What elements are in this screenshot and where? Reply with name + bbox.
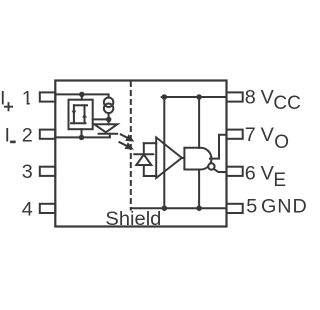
current source CS1 circle bottom (104, 104, 114, 114)
junction node B (box/pin2) (79, 135, 85, 141)
photodiode D2 anode lead (143, 165, 145, 176)
pin 1 stub (40, 92, 56, 101)
pin 5 stub (227, 204, 243, 213)
pin 4 stub (40, 204, 56, 213)
inner loop arrow down (72, 111, 77, 115)
junction node D (VCC rail / amp) (162, 94, 168, 100)
wire LED cathode to pin2 wire (109, 134, 111, 138)
enable bubble (208, 163, 214, 169)
svg-text:5: 5 (246, 195, 257, 217)
wire gate output to pin 7 (210, 135, 227, 159)
VCC top rail (162, 96, 227, 98)
junction node F (GND rail / amp) (162, 205, 168, 211)
amp power line (163, 97, 165, 208)
input network inner loop left (73, 105, 75, 123)
svg-text:1: 1 (22, 87, 33, 109)
junction node E (VCC rail / gate) (196, 94, 202, 100)
photodiode D2 triangle (136, 155, 151, 166)
light arrow 1 (121, 134, 129, 138)
wire pin1 to current source (55, 94, 108, 97)
wire amp to gate (182, 157, 185, 159)
photodiode D2 cathode bar (134, 153, 153, 155)
photodiode D2 cathode lead (143, 143, 145, 154)
input network box (69, 100, 93, 130)
svg-text:Shield: Shield (105, 208, 161, 230)
svg-text:7: 7 (245, 124, 256, 146)
GND bottom rail (131, 207, 227, 209)
LED D1 cathode bar (99, 133, 118, 135)
wire current source to LED anode (108, 113, 110, 124)
svg-text:CC: CC (273, 93, 300, 114)
svg-text:2: 2 (22, 125, 33, 147)
gate power line lower (198, 170, 200, 209)
svg-text:V: V (261, 124, 275, 146)
svg-text:E: E (273, 170, 286, 191)
pin 7 stub (227, 130, 243, 139)
wire pin2 (55, 136, 110, 138)
junction node C (LED anode) (106, 117, 112, 123)
junction node G (GND rail / gate) (196, 205, 202, 211)
inner loop arrow up (82, 113, 87, 117)
input network inner loop top (74, 104, 87, 106)
wire box bottom to pin2 wire (81, 129, 83, 137)
pin 6 stub (227, 167, 243, 176)
pin 2 stub (40, 130, 56, 139)
amp U2 triangle (156, 137, 182, 178)
svg-text:O: O (274, 132, 289, 153)
gate power line upper (198, 97, 200, 148)
shield dashed line (130, 82, 132, 210)
junction node A (pin1/box) (79, 92, 85, 98)
svg-text:4: 4 (22, 198, 33, 220)
wire box right to LED anode node (93, 118, 109, 120)
IC body U1 (55, 81, 226, 227)
amp U2 input wire top (144, 142, 156, 144)
gate U3 (184, 148, 211, 170)
wire bubble to pin 6 (214, 169, 227, 172)
input network inner loop right (84, 105, 86, 123)
light arrow 2 (119, 142, 128, 146)
wire node A to input network box (81, 94, 83, 99)
pin 8 stub (227, 92, 243, 101)
current source CS1 circle top (104, 97, 114, 107)
pin 3 stub (40, 167, 56, 176)
LED D1 triangle (94, 124, 117, 132)
svg-text:6: 6 (245, 162, 256, 184)
input network inner loop bottom (71, 122, 86, 124)
svg-text:I: I (5, 125, 11, 147)
svg-text:8: 8 (245, 86, 256, 108)
svg-text:3: 3 (22, 161, 33, 183)
amp U2 input wire bottom (144, 175, 156, 177)
svg-text:GND: GND (261, 195, 308, 217)
